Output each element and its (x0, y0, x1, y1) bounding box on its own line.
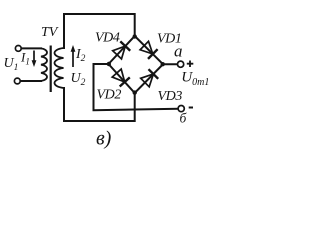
wire: primary top lead (21, 47, 41, 49)
terminal b (178, 106, 184, 112)
current arrow I1 (down) (33, 51, 35, 62)
diode VD2 (112, 69, 125, 82)
current arrow I2 (up) (72, 52, 74, 68)
wire: top rail from secondary top to bridge top (64, 14, 135, 48)
terminal input bottom (14, 78, 20, 84)
node: bridge top vertex (133, 34, 137, 38)
svg-text:VD4: VD4 (95, 31, 120, 46)
svg-text:а: а (174, 42, 183, 61)
node: bridge bottom vertex (133, 90, 137, 94)
primary winding L1 (41, 48, 47, 81)
node: bridge right vertex (161, 62, 165, 66)
transformer core (50, 46, 52, 93)
diode VD3 (141, 74, 154, 87)
wire: minus rail to terminal b (94, 109, 179, 110)
wire: bridge edge left-top (109, 36, 135, 64)
wire: right vertex to terminal a (163, 63, 177, 65)
wire: bridge edge left-bottom (109, 64, 135, 93)
secondary winding L2 (55, 48, 64, 88)
svg-text:VD2: VD2 (97, 88, 122, 103)
wire: bridge edge top-right (135, 36, 163, 64)
wire: primary bottom lead (20, 80, 41, 82)
wire: bridge edge bottom-right (135, 64, 163, 93)
label minus (189, 107, 193, 109)
svg-text:TV: TV (41, 25, 59, 40)
wire: left vertex to down corner to minus rail (94, 64, 109, 110)
label plus (187, 61, 194, 68)
terminal a (178, 61, 184, 67)
svg-text:в): в) (96, 128, 112, 150)
svg-text:VD3: VD3 (158, 89, 183, 104)
diode VD4 (113, 46, 126, 59)
wire: secondary bottom down, lower rail, up to bridge bottom (64, 88, 135, 121)
node: bridge left vertex (107, 62, 111, 66)
terminal input top (15, 46, 21, 52)
diode VD1 (140, 41, 153, 54)
